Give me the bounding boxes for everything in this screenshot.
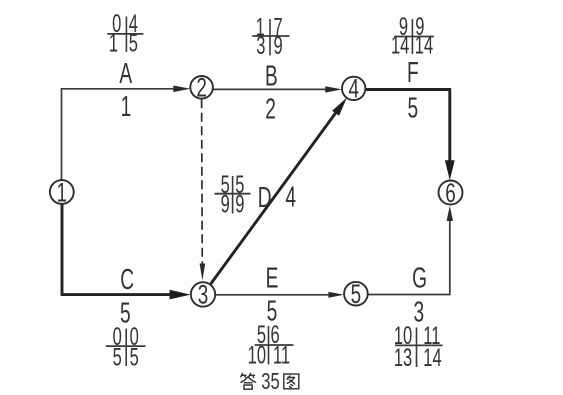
svg-text:1: 1: [57, 177, 68, 207]
svg-text:11: 11: [273, 342, 290, 369]
activity B arrow (node 2 to node 4): [213, 86, 342, 92]
activity A arrow (corner above node 1 to node 2): [61, 86, 191, 93]
node 6: [439, 177, 463, 207]
dummy activity arrow (node 2 to node 3, dashed): [200, 99, 206, 280]
activity D arrow (node 3 to node 4, bold diagonal): [210, 98, 347, 285]
node 1: [50, 177, 74, 207]
svg-text:10: 10: [248, 342, 266, 369]
svg-text:1: 1: [121, 91, 132, 123]
activity C arrow (node 1 down, corner, right to node 3, bold): [62, 204, 191, 300]
svg-text:3: 3: [198, 279, 209, 309]
svg-text:9: 9: [274, 33, 283, 60]
time parameters of D (5|5 over 9|9): [215, 172, 251, 219]
svg-text:4: 4: [285, 182, 296, 214]
node 2: [190, 72, 213, 102]
time parameters of G (10|11 over 13|14): [394, 323, 443, 372]
svg-text:C: C: [120, 264, 134, 296]
time parameters of C (0|0 over 5|5): [106, 324, 146, 372]
svg-text:14: 14: [391, 32, 410, 59]
svg-text:4: 4: [348, 73, 359, 103]
time parameters of F (9|9 over 14|14): [391, 14, 434, 59]
caption character 图: [284, 374, 299, 389]
svg-text:35: 35: [261, 369, 279, 394]
svg-text:3: 3: [413, 297, 424, 329]
svg-text:E: E: [266, 263, 279, 295]
svg-text:G: G: [412, 263, 427, 295]
svg-text:14: 14: [415, 32, 434, 59]
svg-text:9: 9: [235, 191, 244, 218]
caption character 答: [241, 374, 256, 390]
time parameters of A (0|4 over 1|5): [107, 11, 143, 58]
svg-text:D: D: [258, 182, 272, 214]
svg-text:B: B: [265, 61, 278, 93]
svg-text:3: 3: [256, 33, 265, 60]
activity E arrow (node 3 to node 5): [215, 292, 344, 298]
svg-text:13: 13: [394, 345, 412, 372]
svg-text:14: 14: [423, 345, 442, 372]
svg-text:A: A: [119, 58, 132, 90]
activity F arrow (node 4 right, corner, down to node 6): [365, 90, 454, 181]
svg-text:F: F: [407, 57, 419, 89]
svg-text:5: 5: [113, 344, 122, 371]
svg-text:6: 6: [445, 177, 456, 207]
svg-text:5: 5: [130, 344, 139, 371]
svg-text:9: 9: [221, 191, 230, 218]
svg-text:5: 5: [407, 93, 418, 125]
activity G arrow (node 5 right, corner, up to node 6): [368, 206, 453, 295]
svg-text:1: 1: [109, 30, 118, 57]
node 3: [191, 279, 215, 309]
time parameters of E (5|6 over 10|11): [248, 322, 294, 370]
wire corner to node 1 (left vertical, thin): [61, 89, 63, 181]
svg-text:2: 2: [196, 72, 207, 102]
node 5: [344, 279, 368, 309]
svg-text:2: 2: [265, 94, 276, 126]
svg-text:5: 5: [351, 279, 362, 309]
time parameters of B (1|7 over 3|9): [252, 14, 289, 60]
node 4: [342, 73, 365, 103]
svg-text:5: 5: [129, 30, 138, 57]
